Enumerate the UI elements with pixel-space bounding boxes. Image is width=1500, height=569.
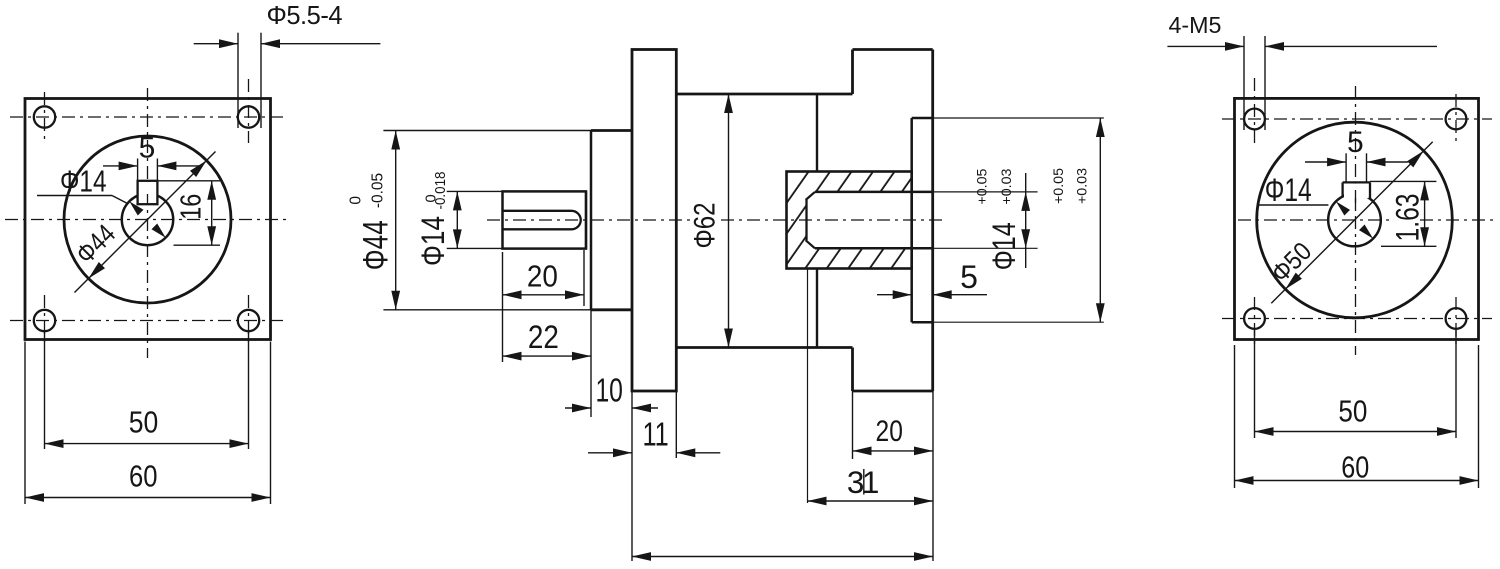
svg-text:+0.05: +0.05 bbox=[974, 168, 990, 204]
svg-text:Φ14: Φ14 bbox=[1265, 172, 1312, 208]
svg-text:60: 60 bbox=[1341, 450, 1369, 485]
svg-text:Φ50: Φ50 bbox=[1265, 236, 1317, 288]
svg-text:10: 10 bbox=[595, 372, 623, 409]
svg-text:22: 22 bbox=[528, 319, 559, 355]
svg-text:Φ14: Φ14 bbox=[986, 222, 1022, 270]
svg-text:4-M5: 4-M5 bbox=[1169, 12, 1222, 38]
svg-text:16: 16 bbox=[176, 194, 208, 220]
svg-text:Φ5.5-4: Φ5.5-4 bbox=[267, 2, 343, 30]
svg-text:5: 5 bbox=[1347, 126, 1364, 159]
svg-text:5: 5 bbox=[139, 132, 156, 165]
svg-text:0: 0 bbox=[348, 196, 365, 205]
svg-text:+0.03: +0.03 bbox=[998, 168, 1014, 204]
svg-text:Φ14: Φ14 bbox=[60, 165, 107, 199]
svg-text:1.63: 1.63 bbox=[1390, 194, 1426, 242]
svg-text:Φ14: Φ14 bbox=[415, 216, 451, 266]
svg-text:+0.03: +0.03 bbox=[1074, 168, 1090, 204]
svg-text:20: 20 bbox=[527, 259, 558, 294]
svg-text:-0.05: -0.05 bbox=[370, 173, 387, 208]
svg-text:Φ44: Φ44 bbox=[70, 219, 121, 270]
svg-text:5: 5 bbox=[960, 259, 978, 295]
svg-text:Φ62: Φ62 bbox=[689, 203, 722, 249]
svg-text:Φ44: Φ44 bbox=[357, 220, 396, 270]
svg-text:50: 50 bbox=[129, 405, 159, 440]
svg-text:-0.018: -0.018 bbox=[432, 172, 449, 210]
svg-text:+0.05: +0.05 bbox=[1050, 168, 1066, 204]
svg-text:60: 60 bbox=[129, 459, 158, 494]
svg-text:11: 11 bbox=[642, 416, 668, 453]
svg-text:50: 50 bbox=[1338, 394, 1367, 429]
svg-text:20: 20 bbox=[876, 415, 903, 448]
